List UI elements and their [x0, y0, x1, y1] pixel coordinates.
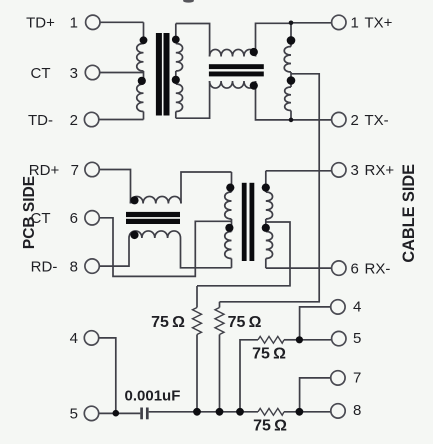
svg-text:PCB SIDE: PCB SIDE — [21, 176, 38, 249]
svg-text:2: 2 — [70, 112, 78, 129]
transformer T1 core — [156, 33, 170, 116]
junction node pin4 left on rail — [113, 410, 120, 417]
polarity dot T2 left upper — [226, 184, 234, 192]
transformer T2 core — [242, 183, 255, 261]
pin 2 TX- right — [332, 112, 346, 126]
wire T2 center tap to resistor R1 — [197, 222, 290, 286]
pin 1 left — [86, 15, 100, 29]
svg-text:75 Ω: 75 Ω — [228, 314, 262, 331]
junction node AT1 bottom — [289, 118, 294, 123]
transformer T2 left winding — [231, 172, 233, 192]
polarity dot CH1 top — [250, 48, 258, 56]
wire to pin TX+ — [291, 22, 332, 24]
wire pin7 right down to node — [300, 378, 331, 412]
junction node pin7/8 right on rail — [296, 408, 304, 416]
capacitor C1 0.001uF — [140, 408, 143, 420]
svg-text:75 Ω: 75 Ω — [252, 345, 286, 362]
pin 8 left — [85, 259, 99, 273]
svg-text:RX-: RX- — [365, 260, 391, 277]
pin 4 right — [331, 300, 345, 314]
svg-text:3: 3 — [351, 162, 359, 179]
polarity dot T1 left upper — [140, 36, 148, 44]
choke CH2 bottom winding — [129, 231, 181, 238]
autotransformer AT1 winding — [290, 23, 292, 47]
svg-text:CABLE SIDE: CABLE SIDE — [400, 164, 418, 263]
junction node pin4/5 right — [296, 336, 303, 343]
pin 6 RX- right — [332, 261, 346, 275]
pin 3 RX+ right — [332, 163, 346, 177]
choke CH1 top winding — [210, 49, 256, 56]
junction node R3 on rail — [236, 408, 244, 416]
artifact smudge top edge — [183, 0, 194, 3]
polarity dot T2 right upper — [262, 184, 270, 192]
wire CH1 bottom right riser — [256, 81, 292, 120]
transformer T1 right winding — [175, 24, 177, 44]
svg-text:2: 2 — [351, 112, 359, 129]
wire pin3 to T1 center tap — [100, 72, 144, 74]
svg-text:4: 4 — [353, 298, 361, 315]
pin 2 left — [84, 112, 98, 126]
polarity dot CH2 top — [130, 196, 138, 204]
wire T1 bottom to choke CH1 — [176, 81, 210, 118]
svg-text:4: 4 — [70, 330, 78, 347]
svg-text:6: 6 — [70, 210, 78, 227]
svg-text:TD-: TD- — [28, 112, 53, 129]
svg-text:1: 1 — [70, 15, 78, 32]
pin 1 TX+ right — [332, 15, 346, 29]
wire pin4 left down — [99, 338, 116, 414]
svg-text:0.001uF: 0.001uF — [125, 387, 181, 404]
svg-text:7: 7 — [71, 162, 79, 179]
wire pin7 to choke CH2 — [99, 170, 130, 204]
wire node to pin5 right — [299, 339, 331, 341]
polarity dot AT1 lower — [287, 76, 296, 85]
svg-text:5: 5 — [70, 406, 78, 423]
wire capacitor to bottom rail — [149, 411, 258, 413]
wire pin5 left to capacitor — [99, 412, 141, 414]
svg-text:8: 8 — [353, 402, 361, 419]
svg-text:3: 3 — [70, 65, 78, 82]
svg-text:8: 8 — [70, 258, 78, 275]
wire to pin RX- — [266, 267, 332, 269]
svg-text:CT: CT — [31, 65, 51, 82]
svg-text:6: 6 — [351, 260, 359, 277]
wire pin2 to T1 — [99, 119, 144, 121]
svg-text:75 Ω: 75 Ω — [253, 418, 287, 435]
junction node R1 on rail — [193, 408, 201, 416]
wire pin4 right down to node — [300, 307, 331, 340]
resistor R3 75 ohm — [284, 339, 299, 341]
svg-text:TD+: TD+ — [26, 15, 55, 32]
svg-text:RX+: RX+ — [365, 162, 395, 179]
choke CH2 core — [126, 212, 180, 224]
pin 7 right — [331, 371, 345, 385]
svg-text:RD-: RD- — [31, 258, 58, 275]
polarity dot T1 right upper — [172, 36, 180, 44]
pin 4 left — [84, 331, 98, 345]
resistor R2 75 ohm — [219, 302, 221, 308]
polarity dot T2 right lower — [262, 224, 270, 232]
choke CH1 core — [209, 64, 264, 76]
transformer T1 left winding — [143, 22, 145, 43]
wire T1 top to choke CH1 — [176, 24, 210, 57]
wire pin1 to T1 — [100, 21, 143, 23]
wire AT1 center tap down to termination — [220, 74, 320, 302]
resistor R4 75 ohm — [258, 408, 284, 415]
pin 5 right — [332, 331, 346, 345]
pin 6 left — [85, 211, 99, 225]
polarity dot AT1 upper — [287, 36, 296, 45]
wire CH2 bottom right to T2 — [181, 238, 232, 268]
polarity dot T2 left lower — [225, 224, 233, 232]
svg-text:75 Ω: 75 Ω — [151, 314, 185, 331]
wire rail to pin8 right — [284, 411, 331, 413]
wire to pin RX+ — [266, 170, 332, 172]
choke CH1 bottom winding — [210, 81, 256, 88]
svg-text:TX+: TX+ — [365, 15, 393, 32]
resistor R1 75 ohm — [196, 286, 198, 308]
polarity dot T1 right lower — [172, 76, 180, 84]
svg-text:1: 1 — [351, 15, 359, 32]
svg-text:5: 5 — [353, 330, 361, 347]
polarity dot T1 left lower — [138, 77, 146, 85]
wire CH1 top right riser — [256, 23, 292, 56]
polarity dot CH2 bottom — [130, 231, 138, 239]
pin 7 left — [85, 162, 99, 176]
pin 3 left — [85, 65, 99, 79]
junction node R2 on rail — [216, 408, 224, 416]
wire to pin TX- — [291, 119, 332, 121]
wire pin6 to T2 center tap — [99, 218, 231, 277]
transformer T2 right winding — [265, 171, 267, 192]
wire CH2 top right to T2 — [181, 172, 232, 204]
svg-text:7: 7 — [353, 369, 361, 386]
wire pin8 to choke CH2 — [99, 238, 129, 266]
polarity dot CH1 bottom — [250, 82, 258, 90]
pin 8 right — [331, 404, 345, 418]
choke CH2 top winding — [131, 196, 182, 203]
svg-text:TX-: TX- — [365, 112, 389, 129]
pin 5 left — [84, 406, 98, 420]
junction node AT1 top — [289, 21, 294, 26]
